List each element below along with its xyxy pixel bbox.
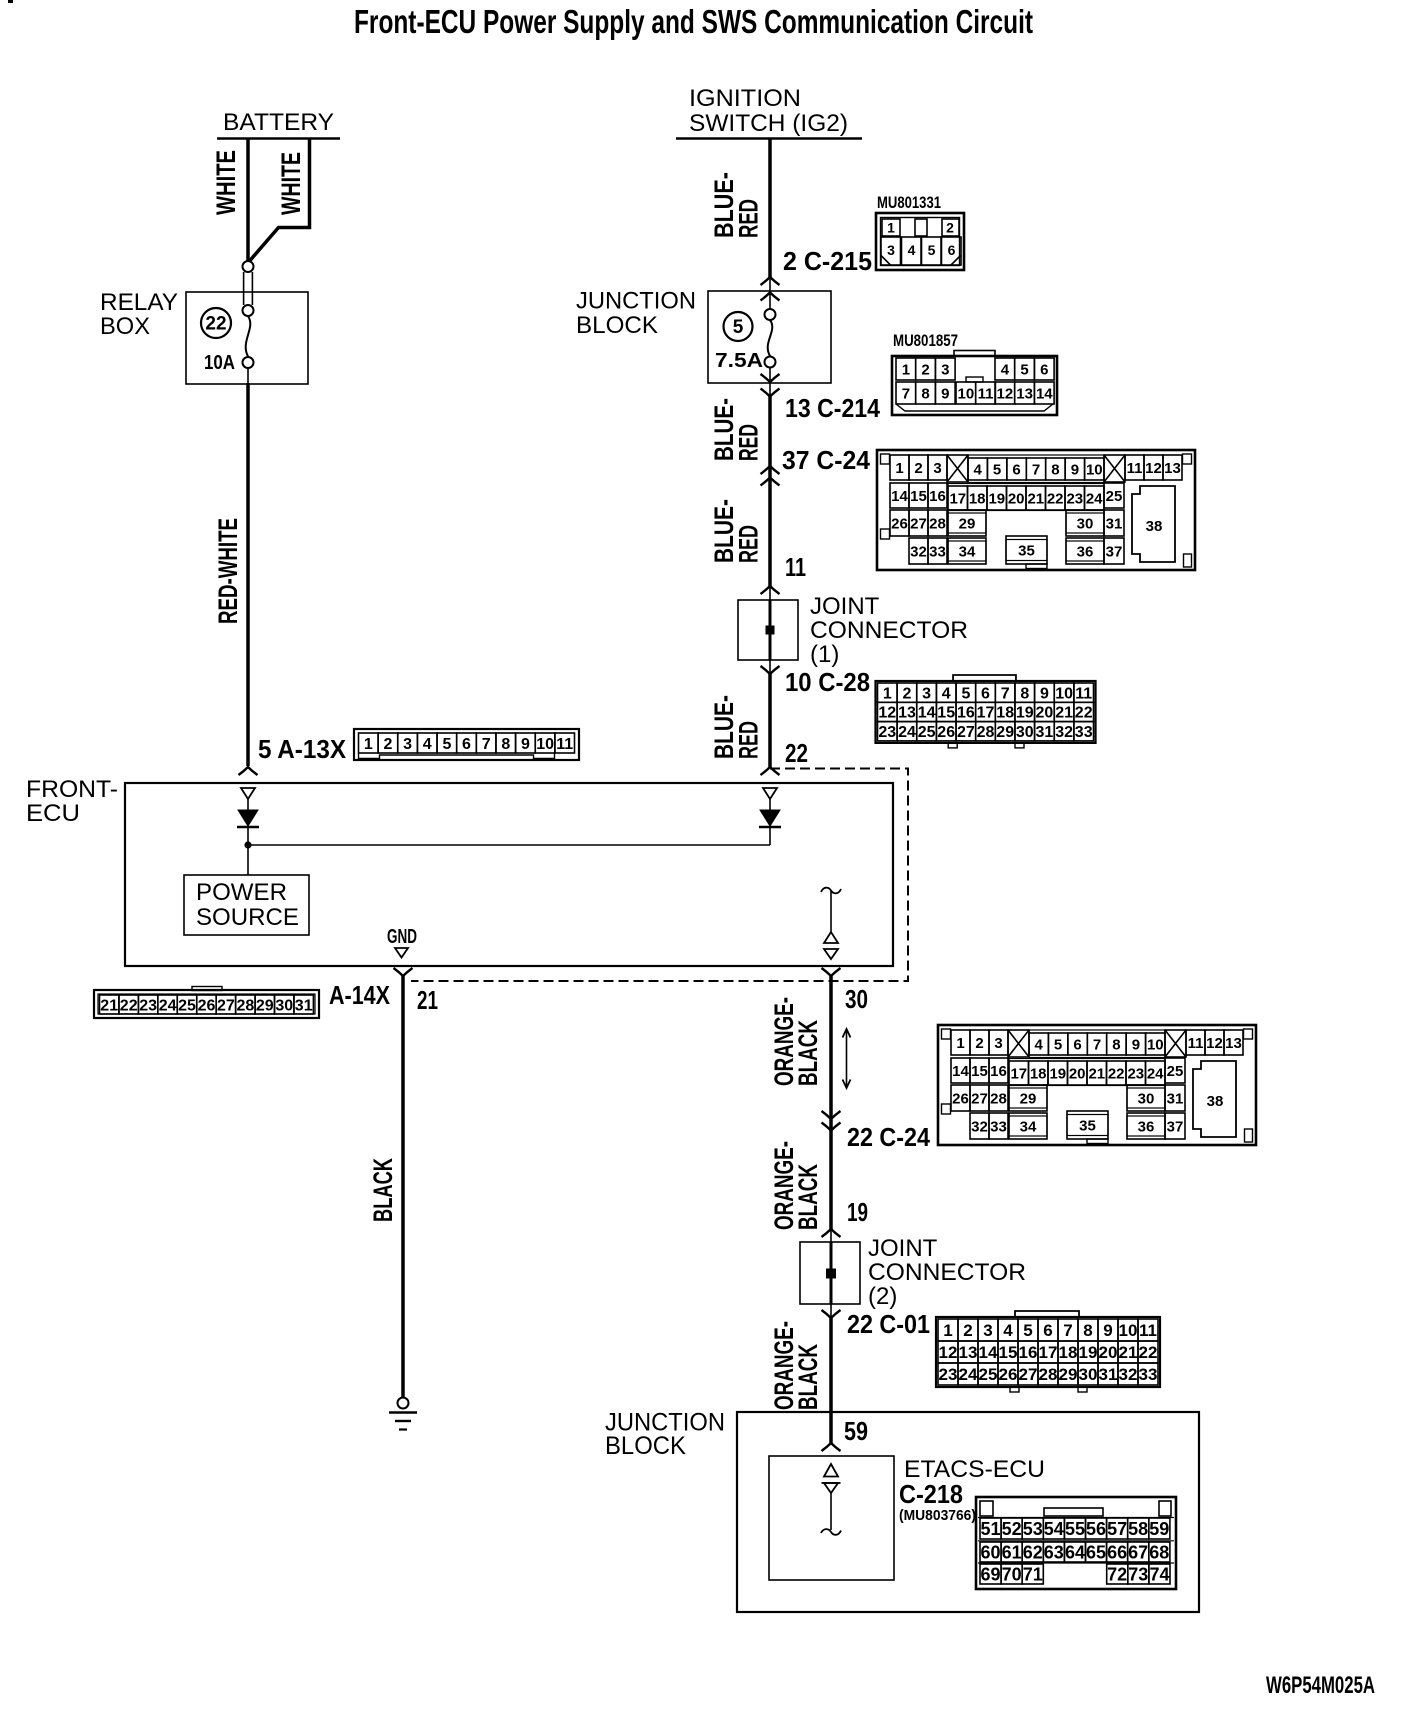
svg-text:20: 20 <box>1069 1065 1086 1082</box>
svg-text:11: 11 <box>1075 685 1092 702</box>
inline connector mark C-24 (double chevron) <box>761 466 780 486</box>
svg-text:1: 1 <box>902 362 910 379</box>
svg-text:27: 27 <box>957 724 975 741</box>
pin label 30 <box>845 984 868 1014</box>
svg-text:7: 7 <box>1032 461 1040 478</box>
scan speck top-left <box>8 0 13 3</box>
connector view MU801857 C-214 <box>892 331 1057 415</box>
svg-text:37 C-24: 37 C-24 <box>782 445 871 475</box>
svg-text:14: 14 <box>952 1063 969 1080</box>
exit pin 21 (GND) <box>394 968 413 976</box>
svg-text:15: 15 <box>910 488 927 505</box>
svg-text:3: 3 <box>994 1035 1002 1052</box>
svg-text:9: 9 <box>941 386 949 403</box>
svg-text:28: 28 <box>990 1090 1007 1107</box>
svg-text:12: 12 <box>1206 1035 1223 1052</box>
svg-text:34: 34 <box>1020 1118 1037 1135</box>
svg-text:56: 56 <box>1086 1519 1106 1539</box>
svg-text:5: 5 <box>733 317 744 338</box>
svg-text:26: 26 <box>937 724 955 741</box>
svg-text:51: 51 <box>980 1519 1000 1539</box>
svg-text:4: 4 <box>1035 1036 1044 1053</box>
svg-text:13: 13 <box>1164 460 1181 477</box>
svg-text:10A: 10A <box>204 352 235 374</box>
svg-text:BLOCK: BLOCK <box>605 1432 686 1460</box>
svg-text:4: 4 <box>1003 1321 1013 1340</box>
wire BLUE-RED to Front-ECU <box>768 674 772 767</box>
svg-text:24: 24 <box>1147 1065 1164 1082</box>
svg-text:11: 11 <box>1127 460 1143 477</box>
svg-text:18: 18 <box>996 705 1014 722</box>
svg-text:BLACK: BLACK <box>793 1164 823 1230</box>
svg-text:BOX: BOX <box>100 313 150 340</box>
svg-text:3: 3 <box>403 736 412 753</box>
svg-text:2: 2 <box>914 460 922 477</box>
svg-text:38: 38 <box>1146 518 1163 535</box>
svg-text:RED: RED <box>734 525 764 563</box>
svg-text:62: 62 <box>1023 1542 1043 1562</box>
svg-text:14: 14 <box>1036 386 1053 403</box>
svg-text:13: 13 <box>1225 1035 1242 1052</box>
svg-text:8: 8 <box>501 736 510 753</box>
joint connector (1) entry chevron <box>761 586 780 600</box>
svg-text:9: 9 <box>1071 461 1079 478</box>
svg-text:3: 3 <box>933 460 941 477</box>
connector junction at relay box entry <box>243 261 254 316</box>
svg-text:22: 22 <box>785 738 808 768</box>
svg-text:2: 2 <box>903 685 912 702</box>
svg-text:JUNCTION: JUNCTION <box>576 288 696 315</box>
relay box outline <box>186 292 308 384</box>
svg-text:CONNECTOR: CONNECTOR <box>810 617 968 644</box>
svg-text:3: 3 <box>887 242 895 258</box>
joint connector (1) exit chevron <box>761 660 780 674</box>
svg-text:52: 52 <box>1002 1519 1022 1539</box>
svg-text:8: 8 <box>1020 685 1029 702</box>
junction block label <box>576 288 696 340</box>
svg-text:10: 10 <box>958 386 975 403</box>
diode D1 (battery input) <box>237 788 259 875</box>
svg-text:17: 17 <box>1039 1343 1058 1362</box>
svg-text:5: 5 <box>993 461 1001 478</box>
svg-text:22: 22 <box>1139 1343 1158 1362</box>
svg-text:27: 27 <box>971 1090 988 1107</box>
wire entry chevron 22 <box>761 767 780 775</box>
svg-text:7: 7 <box>482 736 491 753</box>
svg-text:22: 22 <box>1075 705 1093 722</box>
svg-text:29: 29 <box>959 515 976 532</box>
svg-text:20: 20 <box>1008 490 1025 507</box>
svg-text:18: 18 <box>1030 1065 1047 1082</box>
svg-text:5: 5 <box>928 242 936 258</box>
joint connector (2) label <box>868 1235 1026 1310</box>
wire label WHITE (right) <box>276 152 306 215</box>
svg-text:19: 19 <box>1049 1065 1066 1082</box>
connector view C-24 (upper) <box>877 450 1195 570</box>
svg-text:37: 37 <box>1167 1118 1184 1135</box>
svg-text:30: 30 <box>1077 515 1094 532</box>
connector view MU801331 C-215 <box>876 193 964 270</box>
svg-text:23: 23 <box>139 997 157 1014</box>
wire label BLACK <box>368 1158 398 1222</box>
svg-text:16: 16 <box>990 1063 1007 1080</box>
svg-text:24: 24 <box>1086 490 1103 507</box>
svg-text:66: 66 <box>1107 1542 1127 1562</box>
svg-text:16: 16 <box>1019 1343 1038 1362</box>
svg-text:5: 5 <box>1020 362 1028 379</box>
svg-text:2: 2 <box>921 362 929 379</box>
svg-text:1: 1 <box>887 220 895 236</box>
svg-text:15: 15 <box>937 705 955 722</box>
svg-text:55: 55 <box>1065 1519 1085 1539</box>
svg-text:10: 10 <box>1147 1036 1164 1053</box>
joint connector (2) exit chevron <box>822 1304 841 1318</box>
svg-text:(1): (1) <box>810 641 839 668</box>
pin label 22 C-01 <box>847 1309 930 1339</box>
wire label BLUE-RED (3) <box>709 499 764 563</box>
title <box>354 3 1033 40</box>
svg-text:32: 32 <box>1055 724 1073 741</box>
svg-text:70: 70 <box>1002 1564 1022 1584</box>
svg-text:11: 11 <box>1188 1035 1204 1052</box>
svg-text:25: 25 <box>979 1365 998 1384</box>
svg-text:BLACK: BLACK <box>368 1158 398 1222</box>
svg-text:65: 65 <box>1086 1542 1106 1562</box>
svg-text:22: 22 <box>120 997 138 1014</box>
svg-text:12: 12 <box>997 386 1014 403</box>
svg-text:25: 25 <box>918 724 936 741</box>
svg-text:24: 24 <box>898 724 916 741</box>
svg-text:8: 8 <box>921 386 929 403</box>
SWS line internal symbol <box>821 888 841 959</box>
pin label 21 <box>417 985 438 1015</box>
svg-text:C-218: C-218 <box>899 1479 963 1509</box>
inline connector mark C-24 lower (double chevron) <box>822 1111 841 1131</box>
wire ORANGE-BLACK (3) <box>829 1318 833 1443</box>
joint connector (2) entry chevron <box>822 1229 841 1242</box>
svg-text:72: 72 <box>1107 1564 1127 1584</box>
svg-text:21: 21 <box>1088 1065 1105 1082</box>
wire BLUE-RED to C-24 <box>768 397 772 587</box>
svg-text:30: 30 <box>1138 1090 1155 1107</box>
svg-text:1: 1 <box>943 1321 952 1340</box>
svg-text:22 C-01: 22 C-01 <box>847 1309 930 1339</box>
svg-text:23: 23 <box>939 1365 958 1384</box>
svg-text:7: 7 <box>902 386 910 403</box>
svg-text:38: 38 <box>1207 1093 1224 1110</box>
svg-text:14: 14 <box>918 705 936 722</box>
svg-text:18: 18 <box>969 490 986 507</box>
svg-text:11: 11 <box>556 736 573 753</box>
svg-text:21: 21 <box>1055 705 1073 722</box>
svg-text:14: 14 <box>891 488 908 505</box>
svg-text:ECU: ECU <box>26 800 80 827</box>
svg-text:57: 57 <box>1107 1519 1127 1539</box>
junction block (bottom) outline <box>737 1412 1199 1612</box>
svg-text:29: 29 <box>1020 1090 1037 1107</box>
pin label 19 <box>847 1197 868 1227</box>
svg-text:7.5A: 7.5A <box>715 350 763 372</box>
svg-text:7: 7 <box>1093 1036 1101 1053</box>
connector view C-218 MU803766 <box>976 1497 1176 1589</box>
wire label ORANGE-BLACK (3) <box>769 1321 823 1410</box>
svg-text:10: 10 <box>1119 1321 1138 1340</box>
svg-text:6: 6 <box>948 242 956 258</box>
svg-text:JOINT: JOINT <box>810 593 880 620</box>
ETACS-ECU box <box>769 1456 894 1580</box>
svg-text:22 C-24: 22 C-24 <box>847 1122 930 1152</box>
svg-text:31: 31 <box>1036 724 1054 741</box>
svg-text:8: 8 <box>1112 1036 1120 1053</box>
svg-text:28: 28 <box>237 997 255 1014</box>
svg-text:4: 4 <box>423 736 432 753</box>
internal wire joining diodes <box>244 841 770 848</box>
ignition switch IG2 terminal <box>676 85 862 139</box>
svg-text:25: 25 <box>178 997 196 1014</box>
svg-text:17: 17 <box>977 705 995 722</box>
svg-text:26: 26 <box>999 1365 1018 1384</box>
svg-text:19: 19 <box>1016 705 1034 722</box>
svg-text:RELAY: RELAY <box>100 289 178 316</box>
svg-text:36: 36 <box>1138 1118 1155 1135</box>
svg-text:73: 73 <box>1128 1564 1148 1584</box>
svg-text:POWER: POWER <box>196 879 287 906</box>
svg-text:16: 16 <box>957 705 975 722</box>
svg-text:WHITE: WHITE <box>276 152 306 215</box>
wire RED-WHITE relay to ECU <box>247 368 249 766</box>
svg-text:FRONT-: FRONT- <box>26 776 118 803</box>
wire label ORANGE-BLACK (2) <box>769 1141 823 1230</box>
svg-text:12: 12 <box>1145 460 1162 477</box>
svg-text:13: 13 <box>1016 386 1033 403</box>
svg-text:35: 35 <box>1079 1117 1096 1134</box>
svg-text:28: 28 <box>929 515 946 532</box>
svg-text:3: 3 <box>922 685 931 702</box>
svg-text:(MU803766): (MU803766) <box>899 1507 976 1524</box>
svg-text:6: 6 <box>1073 1036 1081 1053</box>
svg-text:10 C-28: 10 C-28 <box>785 667 870 697</box>
svg-text:12: 12 <box>878 705 896 722</box>
svg-text:6: 6 <box>1040 362 1048 379</box>
wire label ORANGE-BLACK (1) <box>769 997 823 1086</box>
wire label BLUE-RED (4) <box>709 695 764 759</box>
svg-text:17: 17 <box>1010 1065 1027 1082</box>
svg-text:19: 19 <box>988 490 1005 507</box>
svg-text:21: 21 <box>417 985 438 1015</box>
svg-text:11: 11 <box>978 386 994 403</box>
svg-text:31: 31 <box>1099 1365 1118 1384</box>
wire ORANGE-BLACK (1) <box>829 976 833 1229</box>
wire battery left WHITE <box>246 138 250 261</box>
svg-text:23: 23 <box>1066 490 1083 507</box>
svg-text:33: 33 <box>990 1118 1007 1135</box>
svg-text:7: 7 <box>1063 1321 1072 1340</box>
wire entry chevron A-13X/5 <box>239 767 258 775</box>
svg-text:9: 9 <box>1040 685 1049 702</box>
svg-text:22: 22 <box>1108 1065 1125 1082</box>
svg-text:21: 21 <box>1027 490 1044 507</box>
svg-text:64: 64 <box>1065 1542 1085 1562</box>
svg-text:61: 61 <box>1002 1542 1022 1562</box>
svg-text:34: 34 <box>959 543 976 560</box>
ETACS internal symbol <box>821 1464 841 1535</box>
svg-text:GND: GND <box>387 926 417 948</box>
svg-text:60: 60 <box>980 1542 1000 1562</box>
svg-text:26: 26 <box>198 997 216 1014</box>
svg-text:22: 22 <box>1047 490 1064 507</box>
svg-text:31: 31 <box>1106 515 1123 532</box>
svg-text:29: 29 <box>1059 1365 1078 1384</box>
svg-text:32: 32 <box>910 543 927 560</box>
svg-text:9: 9 <box>521 736 530 753</box>
svg-text:1: 1 <box>883 685 892 702</box>
svg-text:6: 6 <box>462 736 471 753</box>
joint connector (1) label <box>810 593 968 668</box>
svg-text:BLACK: BLACK <box>793 1344 823 1410</box>
svg-text:3: 3 <box>941 362 949 379</box>
svg-text:6: 6 <box>1043 1321 1052 1340</box>
joint connector (1) box <box>738 600 798 660</box>
svg-text:53: 53 <box>1023 1519 1043 1539</box>
diagram code <box>1266 1672 1375 1699</box>
svg-text:9: 9 <box>1103 1321 1112 1340</box>
svg-text:2 C-215: 2 C-215 <box>783 246 872 276</box>
svg-text:2: 2 <box>975 1035 983 1052</box>
relay box label <box>100 289 178 340</box>
svg-text:33: 33 <box>1075 724 1093 741</box>
pin label 59 <box>844 1416 868 1446</box>
svg-text:5 A-13X: 5 A-13X <box>258 734 347 764</box>
connector view C-01 <box>936 1311 1160 1392</box>
svg-text:27: 27 <box>910 515 927 532</box>
pin label 13 C-214 <box>785 393 880 423</box>
svg-text:A-14X: A-14X <box>329 980 391 1010</box>
svg-text:19: 19 <box>847 1197 868 1227</box>
svg-text:30: 30 <box>1079 1365 1098 1384</box>
svg-text:5: 5 <box>1054 1036 1062 1053</box>
svg-text:18: 18 <box>1059 1343 1078 1362</box>
svg-text:24: 24 <box>959 1365 978 1384</box>
svg-text:RED: RED <box>734 424 764 461</box>
svg-text:9: 9 <box>1132 1036 1140 1053</box>
svg-text:4: 4 <box>974 461 983 478</box>
svg-text:15: 15 <box>971 1063 988 1080</box>
svg-text:10: 10 <box>536 736 554 753</box>
svg-text:23: 23 <box>878 724 896 741</box>
svg-text:SOURCE: SOURCE <box>196 904 299 931</box>
svg-text:10: 10 <box>1055 685 1073 702</box>
connector view A-14X <box>94 987 319 1019</box>
svg-text:22: 22 <box>205 314 226 335</box>
svg-text:4: 4 <box>1001 362 1010 379</box>
svg-text:3: 3 <box>983 1321 992 1340</box>
svg-text:11: 11 <box>785 552 806 582</box>
front-ecu box <box>125 783 893 966</box>
connector view C-24 (lower) <box>938 1025 1256 1145</box>
front-ecu dashed boundary <box>411 769 908 982</box>
svg-text:15: 15 <box>999 1343 1018 1362</box>
svg-text:19: 19 <box>1079 1343 1098 1362</box>
svg-text:13: 13 <box>959 1343 978 1362</box>
svg-text:30: 30 <box>275 997 293 1014</box>
svg-text:33: 33 <box>929 543 946 560</box>
svg-text:25: 25 <box>1106 488 1123 505</box>
svg-text:2: 2 <box>963 1321 972 1340</box>
svg-text:Front-ECU Power Supply and SWS: Front-ECU Power Supply and SWS Communica… <box>354 3 1033 40</box>
svg-text:58: 58 <box>1128 1519 1148 1539</box>
diode D2 (ignition input) <box>759 788 781 845</box>
svg-text:1: 1 <box>364 736 373 753</box>
fuse 5 7.5A <box>715 293 776 383</box>
svg-text:16: 16 <box>929 488 946 505</box>
svg-text:54: 54 <box>1044 1519 1064 1539</box>
svg-text:27: 27 <box>1019 1365 1038 1384</box>
svg-text:13: 13 <box>898 705 916 722</box>
joint connector (2) box <box>800 1242 860 1304</box>
svg-text:25: 25 <box>1167 1063 1184 1080</box>
svg-text:71: 71 <box>1023 1564 1043 1584</box>
svg-text:63: 63 <box>1044 1542 1064 1562</box>
junction block (top) outline <box>708 291 831 383</box>
ETACS-ECU label <box>899 1456 1045 1524</box>
wire label BLUE-RED (1) <box>709 172 764 238</box>
connector view C-28 <box>876 675 1096 748</box>
wire ignition BLUE-RED <box>768 138 772 277</box>
svg-text:5: 5 <box>1023 1321 1032 1340</box>
svg-text:21: 21 <box>1119 1343 1138 1362</box>
fuse 22 10A <box>201 308 254 374</box>
svg-text:W6P54M025A: W6P54M025A <box>1266 1672 1375 1699</box>
svg-text:4: 4 <box>942 685 951 702</box>
svg-text:27: 27 <box>217 997 235 1014</box>
pin label 11 <box>785 552 806 582</box>
svg-text:6: 6 <box>1012 461 1020 478</box>
pin label 2 C-215 <box>783 246 872 276</box>
svg-text:29: 29 <box>996 724 1014 741</box>
svg-text:11: 11 <box>1139 1321 1157 1340</box>
svg-text:5: 5 <box>442 736 451 753</box>
front-ecu label <box>26 776 118 827</box>
pin label 10 C-28 <box>785 667 870 697</box>
svg-text:2: 2 <box>384 736 393 753</box>
svg-text:MU801857: MU801857 <box>893 331 958 350</box>
svg-text:12: 12 <box>939 1343 958 1362</box>
svg-text:RED: RED <box>734 199 764 238</box>
svg-text:8: 8 <box>1083 1321 1092 1340</box>
svg-text:RED: RED <box>734 721 764 759</box>
svg-text:74: 74 <box>1149 1564 1169 1584</box>
svg-text:4: 4 <box>908 242 916 258</box>
connector mark C-215 (double chevron) <box>761 277 780 301</box>
svg-text:26: 26 <box>891 515 908 532</box>
svg-text:68: 68 <box>1149 1542 1169 1562</box>
svg-text:BATTERY: BATTERY <box>223 109 334 136</box>
svg-text:20: 20 <box>1099 1343 1118 1362</box>
svg-text:33: 33 <box>1139 1365 1158 1384</box>
svg-text:1: 1 <box>956 1035 964 1052</box>
wire label RED-WHITE <box>213 518 243 624</box>
svg-text:6: 6 <box>981 685 990 702</box>
svg-text:17: 17 <box>949 490 966 507</box>
connector view A-13X <box>354 729 579 760</box>
svg-text:67: 67 <box>1128 1542 1148 1562</box>
svg-text:30: 30 <box>845 984 868 1014</box>
svg-text:(2): (2) <box>868 1283 897 1310</box>
svg-text:31: 31 <box>1167 1090 1184 1107</box>
svg-text:MU801331: MU801331 <box>877 193 941 212</box>
svg-text:21: 21 <box>100 997 118 1014</box>
svg-text:37: 37 <box>1106 543 1123 560</box>
